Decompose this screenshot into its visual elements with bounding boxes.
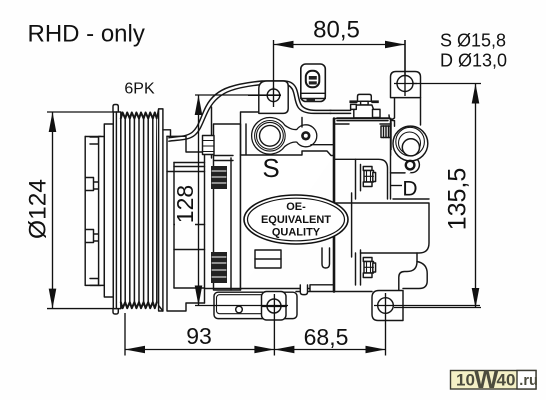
svg-text:OE-: OE-: [286, 201, 306, 213]
svg-text:D Ø13,0: D Ø13,0: [440, 51, 507, 71]
head inner plate: [334, 159, 388, 199]
pulley ribs bottom zigzag: [121, 302, 157, 308]
body front section: [214, 124, 241, 290]
valve dark flanges: [349, 100, 378, 103]
U clip: [322, 248, 330, 268]
bottom-right ear hole: [378, 298, 394, 314]
body bottom edge: [205, 285, 373, 292]
top-left mounting ear: [259, 81, 288, 113]
rear top block: [334, 123, 391, 125]
front bolt upper: [211, 166, 227, 283]
head foot step: [399, 253, 417, 291]
rim top tab: [113, 105, 118, 113]
svg-text:W: W: [474, 364, 499, 394]
pulley ribs top zigzag: [121, 113, 157, 119]
svg-text:128: 128: [172, 185, 198, 223]
pulley clutch plate: [85, 137, 101, 286]
top plate: [337, 115, 394, 121]
arrows 68,5: [274, 346, 294, 354]
pulley front flange: [104, 124, 113, 297]
head mid block: [334, 199, 429, 253]
thick section line: [333, 119, 336, 292]
body foot tab: [300, 285, 307, 295]
svg-text:135,5: 135,5: [444, 168, 472, 231]
body center block: [241, 151, 335, 290]
valve stack: [351, 94, 380, 118]
svg-text:D: D: [402, 178, 417, 201]
S lug bolt: [301, 131, 310, 140]
pulley right flange: [157, 109, 163, 311]
bottom bracket left: [214, 292, 297, 318]
connector plug: [301, 64, 326, 102]
head bolt upper: [363, 167, 375, 187]
svg-text:10: 10: [456, 371, 475, 390]
dim 68,5: [274, 293, 385, 356]
dim 93: [125, 313, 274, 356]
head bolt lower: [363, 258, 375, 278]
svg-text:.ru: .ru: [519, 373, 538, 389]
top plate under valve: [302, 118, 391, 145]
shaft step block: [159, 130, 171, 311]
wire right run: [330, 109, 351, 111]
top-left mounting ear column: [241, 112, 259, 155]
dim Ø124: [47, 112, 113, 309]
bottom-left mounting ear: [262, 292, 287, 321]
ear hole: [267, 89, 280, 102]
svg-text:EQUIVALENT: EQUIVALENT: [261, 214, 331, 226]
OE badge: [244, 195, 348, 244]
svg-text:68,5: 68,5: [304, 324, 349, 350]
dim 80,5: [274, 40, 406, 89]
rim bottom tab: [113, 309, 118, 314]
svg-text:RHD - only: RHD - only: [28, 20, 145, 47]
D column redraw: [391, 121, 395, 199]
pulley clutch disc: [99, 137, 105, 286]
ribbed clamp block: [203, 136, 215, 155]
arrows 128: [195, 95, 203, 115]
top-right bracket column: [391, 98, 421, 155]
top-right ear hole: [397, 76, 413, 92]
D side ribbed fitting: [381, 126, 391, 138]
D port boss: [393, 126, 428, 161]
small vent rect: [255, 250, 281, 268]
svg-text:QUALITY: QUALITY: [272, 227, 321, 239]
dim 135,5: [394, 84, 481, 309]
ear crosshairs: [248, 87, 281, 107]
D port boss bump: [404, 157, 420, 173]
svg-text:80,5: 80,5: [313, 17, 360, 44]
svg-text:S: S: [262, 153, 279, 183]
arrows 93: [125, 346, 145, 354]
S port rings: [255, 121, 286, 152]
head bolt boss columns: [356, 159, 361, 285]
bottom-left ear hole: [267, 299, 281, 313]
pulley rib lines: [121, 119, 157, 303]
rear inner line: [351, 193, 353, 257]
bottom bracket right / ear: [372, 291, 403, 321]
pulley rim left band: [113, 112, 121, 309]
svg-text:6PK: 6PK: [124, 81, 155, 98]
svg-text:S Ø15,8: S Ø15,8: [440, 31, 506, 51]
D leader: [390, 185, 402, 187]
svg-text:40: 40: [497, 371, 516, 390]
D port rings: [396, 127, 425, 156]
dim 128: [195, 95, 288, 306]
top-right mounting ear: [391, 72, 421, 98]
compressor front housing: [167, 107, 222, 311]
arrows Ø124: [49, 112, 57, 132]
dim text 128: [172, 180, 198, 228]
arrows 80,5: [274, 41, 294, 49]
wire left run: [169, 81, 331, 138]
svg-text:Ø124: Ø124: [25, 179, 52, 239]
svg-text:93: 93: [186, 323, 212, 349]
arrows 135,5: [472, 84, 480, 104]
S port boss: [252, 118, 317, 155]
D small hole: [406, 161, 415, 170]
